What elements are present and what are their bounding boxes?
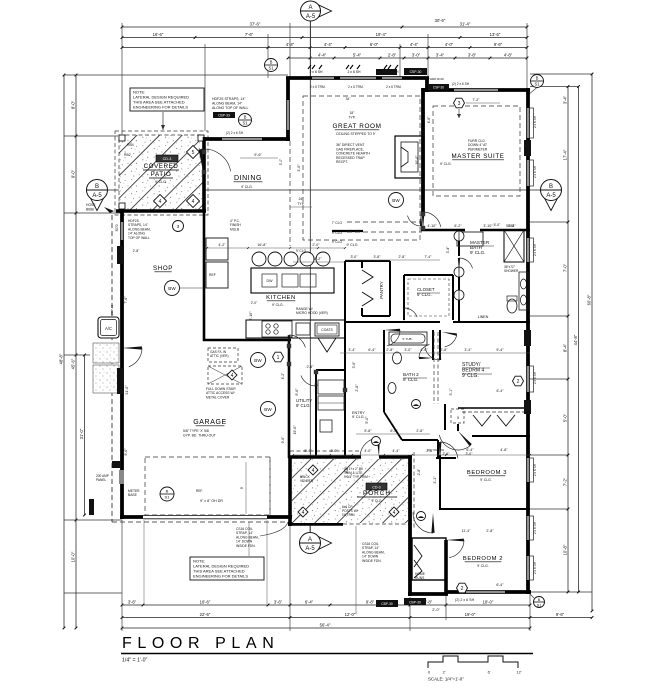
coats closet <box>315 323 339 336</box>
svg-text:A-5: A-5 <box>546 193 556 199</box>
door study <box>439 345 441 360</box>
svg-text:A-5: A-5 <box>92 193 102 199</box>
svg-text:LINEN: LINEN <box>478 315 489 319</box>
section cut line A vertical <box>309 21 311 533</box>
porch west wall <box>288 457 292 526</box>
covered patio dashed roof edge <box>115 131 208 215</box>
svg-text:BASE: BASE <box>128 493 138 497</box>
svg-text:6'-4": 6'-4" <box>368 348 376 352</box>
windows on great room north wall <box>312 76 334 79</box>
pantry door chevrons <box>362 270 373 284</box>
door bath2 <box>384 329 400 332</box>
svg-text:9' CLG.: 9' CLG. <box>470 250 485 255</box>
wall fixtures closet wall <box>454 231 464 241</box>
svg-text:9' CLG.: 9' CLG. <box>296 403 311 408</box>
svg-text:1X TRIM: 1X TRIM <box>342 513 355 517</box>
cbp tag bottom wall <box>376 600 398 607</box>
svg-text:2'-6": 2'-6" <box>443 452 451 456</box>
garage interior dim line <box>245 462 247 514</box>
holdown tag left of garage door <box>89 499 94 515</box>
svg-text:2'-0": 2'-0" <box>432 608 440 612</box>
svg-text:SCALE: 1/4"=1'-0": SCALE: 1/4"=1'-0" <box>428 677 464 682</box>
svg-text:9' CLG.: 9' CLG. <box>440 162 452 166</box>
svg-text:RB4: RB4 <box>127 143 134 147</box>
bedroom2 south wall <box>446 590 531 594</box>
section marker B/A-5 right <box>544 198 557 210</box>
svg-text:9' CLG: 9' CLG <box>296 249 307 253</box>
marker hex 3 master <box>454 98 465 108</box>
svg-text:2'-8": 2'-8" <box>417 468 421 476</box>
door garage-house <box>288 335 291 352</box>
svg-text:INSIDE FDN.: INSIDE FDN. <box>362 559 382 563</box>
svg-text:BW: BW <box>168 286 176 291</box>
svg-text:4'-4": 4'-4" <box>324 42 333 47</box>
svg-text:CBP-33: CBP-33 <box>218 114 230 118</box>
svg-text:7'-6": 7'-6" <box>124 296 128 304</box>
svg-text:8'-4": 8'-4" <box>563 343 568 352</box>
door master bath <box>458 258 460 272</box>
svg-text:PATIO: PATIO <box>151 171 172 178</box>
svg-text:2 x 6 SH: 2 x 6 SH <box>533 371 537 384</box>
svg-text:2 x 6 TRM.: 2 x 6 TRM. <box>310 85 326 89</box>
svg-text:CD-3: CD-3 <box>372 486 380 490</box>
svg-text:44'-8": 44'-8" <box>573 334 578 345</box>
svg-text:COATS: COATS <box>321 328 333 332</box>
svg-text:9'-6": 9'-6" <box>281 436 285 444</box>
svg-text:34": 34" <box>346 97 352 101</box>
svg-text:3'-4": 3'-4" <box>446 246 450 254</box>
marker A/A-5 bottom <box>318 536 331 549</box>
svg-text:37'-6": 37'-6" <box>250 21 261 26</box>
svg-text:3'-6": 3'-6" <box>128 599 137 604</box>
svg-text:3'-8": 3'-8" <box>374 255 382 259</box>
svg-text:2'-8": 2'-8" <box>399 255 407 259</box>
roof dashed toward bedroom wing <box>427 449 446 451</box>
svg-text:3'-6": 3'-6" <box>352 361 356 369</box>
svg-text:5'-0": 5'-0" <box>563 413 568 422</box>
svg-text:TOP OF WALL: TOP OF WALL <box>128 236 150 240</box>
svg-text:4'-4": 4'-4" <box>392 449 400 453</box>
svg-text:2'-8": 2'-8" <box>440 348 448 352</box>
svg-text:10'-0": 10'-0" <box>71 551 76 562</box>
svg-text:8'-0": 8'-0" <box>71 100 76 109</box>
svg-text:3'-0": 3'-0" <box>404 348 412 352</box>
svg-text:COVERED: COVERED <box>144 163 179 170</box>
svg-text:3'-1": 3'-1" <box>449 388 453 396</box>
interior dim line porch row <box>293 454 530 456</box>
hall to bedroom3 walls <box>444 404 446 430</box>
svg-text:4: 4 <box>192 199 195 205</box>
svg-text:9 3/4" TYP TRIM: 9 3/4" TYP TRIM <box>344 475 368 479</box>
left dim connectors <box>64 74 288 76</box>
pantry walls <box>345 260 390 262</box>
svg-text:5'-8": 5'-8" <box>364 429 372 433</box>
svg-text:HDF2S STRAPS, 14": HDF2S STRAPS, 14" <box>212 97 246 101</box>
svg-text:(2) 2 x 6 SH: (2) 2 x 6 SH <box>226 131 244 135</box>
svg-text:5' TUB: 5' TUB <box>402 337 411 341</box>
kitchen/garage wall <box>203 339 291 342</box>
extension lines from top dims <box>121 23 123 134</box>
garage door opening <box>143 515 267 518</box>
svg-text:9': 9' <box>240 486 244 489</box>
svg-text:4'-0": 4'-0" <box>364 449 372 453</box>
pantry and hall north wall <box>344 261 346 312</box>
svg-text:BEDROOM 2: BEDROOM 2 <box>463 556 503 562</box>
note box lateral design top <box>130 88 204 111</box>
door jamb ticks <box>202 150 206 154</box>
master north wall <box>424 88 530 92</box>
svg-text:A-5: A-5 <box>306 14 316 20</box>
side door arc shop <box>122 346 142 349</box>
svg-text:7' CLG: 7' CLG <box>332 221 343 225</box>
door bedroom3 <box>439 442 442 460</box>
porch south wall segment <box>288 522 343 526</box>
svg-text:4'-8": 4'-8" <box>504 52 513 57</box>
svg-text:MICRO HOOD (VER): MICRO HOOD (VER) <box>296 311 328 315</box>
CSP tags east wall <box>524 140 531 156</box>
svg-text:B: B <box>95 184 99 190</box>
svg-text:CSP-30: CSP-30 <box>433 86 444 90</box>
svg-text:7'-6": 7'-6" <box>245 32 254 37</box>
patio wall right <box>202 137 206 212</box>
bath2 west wall <box>383 330 385 412</box>
master vanity <box>519 272 528 310</box>
dimension row top 4 <box>288 57 527 59</box>
svg-text:GYP. BD. THRU-OUT: GYP. BD. THRU-OUT <box>183 433 216 437</box>
svg-text:4: 4 <box>302 510 305 516</box>
porch east wall <box>408 455 412 596</box>
svg-text:9' CLG: 9' CLG <box>332 231 343 235</box>
svg-text:2'-8": 2'-8" <box>386 348 394 352</box>
dimension col right 3 <box>591 74 593 611</box>
svg-text:2 x 6 SH: 2 x 6 SH <box>533 521 537 534</box>
porch diamonds <box>308 465 318 475</box>
svg-text:3'-4": 3'-4" <box>464 348 472 352</box>
svg-text:9'-6": 9'-6" <box>494 42 503 47</box>
master shower <box>504 230 524 262</box>
section marker A/A-5 top <box>318 5 331 17</box>
svg-text:CSP-30: CSP-30 <box>410 70 422 74</box>
svg-text:3'-0": 3'-0" <box>330 449 338 453</box>
hall dashed lines <box>433 332 435 404</box>
svg-text:12'-0": 12'-0" <box>345 612 356 617</box>
flatwork stipple pads <box>93 343 119 363</box>
svg-text:4: 4 <box>312 468 315 474</box>
dimension row top 2 <box>122 37 527 39</box>
meter base <box>160 487 174 501</box>
door master entry <box>422 212 425 230</box>
svg-text:3'-10": 3'-10" <box>483 224 493 228</box>
svg-text:CBP-30: CBP-30 <box>409 601 421 605</box>
svg-text:7'-2": 7'-2" <box>563 477 568 486</box>
svg-text:A: A <box>308 537 312 543</box>
thrd rod tags <box>428 84 449 90</box>
dimension row top 3 <box>122 47 527 49</box>
svg-text:ENGINEERING FOR DETAILS: ENGINEERING FOR DETAILS <box>193 574 248 579</box>
entry south wall <box>408 592 448 596</box>
svg-text:4'-2": 4'-2" <box>281 372 285 380</box>
patio/shop wall bottom <box>116 209 206 213</box>
svg-text:PERIMETER: PERIMETER <box>468 147 488 151</box>
svg-text:ATTIC (VER): ATTIC (VER) <box>210 354 229 358</box>
svg-text:5'-0": 5'-0" <box>365 416 369 424</box>
svg-text:B: B <box>166 489 169 494</box>
east wall <box>526 88 530 594</box>
svg-text:SHOWER: SHOWER <box>504 269 519 273</box>
svg-text:B: B <box>244 115 247 120</box>
svg-text:PANEL: PANEL <box>96 478 106 482</box>
attic access dashed <box>208 348 238 362</box>
svg-text:4'-6": 4'-6" <box>427 116 431 124</box>
master tub <box>457 232 483 246</box>
right dim connectors <box>530 73 592 75</box>
svg-text:9'-4": 9'-4" <box>496 348 504 352</box>
svg-text:TYP.: TYP. <box>298 202 305 206</box>
great room north wall <box>286 76 429 80</box>
svg-text:CBP-33: CBP-33 <box>110 304 114 315</box>
great room south dims <box>293 261 345 263</box>
fridge <box>206 262 228 288</box>
svg-text:(2) 2 x 6 SH: (2) 2 x 6 SH <box>455 598 475 602</box>
svg-text:31'-4": 31'-4" <box>460 21 471 26</box>
svg-text:6'-4": 6'-4" <box>390 429 398 433</box>
svg-text:B: B <box>549 184 553 190</box>
bw marker shop <box>165 281 180 296</box>
svg-text:4'-4": 4'-4" <box>410 42 419 47</box>
svg-text:19'-4": 19'-4" <box>376 32 387 37</box>
svg-text:PANTRY: PANTRY <box>379 281 384 298</box>
svg-text:PORCH: PORCH <box>363 490 391 497</box>
svg-text:16'-0": 16'-0" <box>415 155 419 165</box>
svg-text:S1: S1 <box>242 121 248 126</box>
svg-text:3'-0": 3'-0" <box>345 466 349 474</box>
svg-text:CBP-30: CBP-30 <box>381 602 393 606</box>
west wall shop/garage <box>120 209 124 519</box>
bedroom3 south wall <box>440 508 530 510</box>
kitchen bar stools <box>252 252 266 266</box>
door closet <box>403 308 405 322</box>
svg-text:9'-0": 9'-0" <box>124 448 128 456</box>
svg-text:B: B <box>270 60 273 65</box>
bedroom3 door arc <box>458 431 472 446</box>
svg-text:3'-4": 3'-4" <box>563 95 568 104</box>
svg-text:4: 4 <box>159 199 162 205</box>
svg-text:DINING: DINING <box>234 175 262 182</box>
svg-text:3: 3 <box>177 224 180 229</box>
svg-text:30'-6": 30'-6" <box>435 18 446 23</box>
svg-text:2'-10": 2'-10" <box>249 311 253 321</box>
interior dim line kitchen row <box>207 247 345 249</box>
marker B/S1 right top <box>531 75 544 88</box>
svg-text:RECPT.: RECPT. <box>336 160 348 164</box>
svg-text:TYP.: TYP. <box>349 116 356 120</box>
svg-text:2'-8": 2'-8" <box>355 384 359 392</box>
bottom note box <box>190 557 264 580</box>
fireplace <box>395 136 424 178</box>
svg-text:19'-6": 19'-6" <box>293 425 297 435</box>
svg-text:1: 1 <box>277 355 280 361</box>
svg-text:0: 0 <box>428 671 430 675</box>
wall south of closet/linen <box>345 321 440 323</box>
bottom extension lines <box>121 520 123 631</box>
svg-text:MASTER SUITE: MASTER SUITE <box>452 153 505 160</box>
A/C unit <box>98 317 119 338</box>
svg-text:9' CLG: 9' CLG <box>332 240 343 244</box>
svg-text:THRD ROD: THRD ROD <box>428 77 445 81</box>
svg-text:4'-8": 4'-8" <box>500 448 508 452</box>
svg-text:18": 18" <box>350 111 356 115</box>
CBP-30 label box bottom <box>404 598 426 605</box>
svg-text:13'-6": 13'-6" <box>490 32 501 37</box>
master south wall <box>421 229 465 231</box>
bedroom3 west wall <box>439 455 441 510</box>
dining/great room dashed boundary <box>289 141 291 246</box>
porch roof dashed south <box>343 523 412 525</box>
svg-text:A-5: A-5 <box>305 546 315 552</box>
svg-text:6'-4": 6'-4" <box>497 389 505 393</box>
svg-text:9'-6": 9'-6" <box>295 388 299 396</box>
utility appliances <box>318 380 344 394</box>
svg-text:BW: BW <box>264 407 272 412</box>
closet shelf dashed <box>408 279 449 316</box>
great room west wall upper <box>286 77 290 141</box>
svg-text:24": 24" <box>299 197 305 201</box>
dimension col left inner <box>75 75 77 628</box>
svg-text:CD-3: CD-3 <box>163 157 172 161</box>
svg-text:6': 6' <box>488 671 491 675</box>
svg-text:5: 5 <box>192 150 195 156</box>
svg-text:GARAGE: GARAGE <box>193 419 227 426</box>
svg-text:2'-8": 2'-8" <box>508 224 516 228</box>
bath2 east wall <box>432 330 434 360</box>
svg-text:5'-4": 5'-4" <box>353 52 362 57</box>
svg-text:VENEER: VENEER <box>300 479 314 483</box>
svg-text:16'-6": 16'-6" <box>200 599 211 604</box>
entry door arc <box>431 513 434 533</box>
svg-text:3'-0": 3'-0" <box>297 164 301 172</box>
svg-text:ALONG TOP OF WALL: ALONG TOP OF WALL <box>212 106 248 110</box>
header south of great room <box>332 230 363 232</box>
svg-text:2'-8": 2'-8" <box>426 449 434 453</box>
svg-text:9" x 8" OH DR: 9" x 8" OH DR <box>200 499 223 503</box>
dimension col right 1 <box>567 87 569 593</box>
ceiling step dashed lines <box>347 221 422 223</box>
bath2 toilet <box>393 352 402 364</box>
master ceiling dashed <box>433 106 520 196</box>
svg-text:3'-0": 3'-0" <box>466 452 474 456</box>
patio corner posts <box>119 135 125 141</box>
marker B/S1 top left <box>265 59 278 72</box>
master bath west wall <box>458 230 460 256</box>
closet walls <box>403 275 405 320</box>
svg-text:5'-0": 5'-0" <box>494 223 502 227</box>
svg-text:3'-0": 3'-0" <box>412 52 421 57</box>
front door arc <box>377 438 380 457</box>
svg-text:6'-4": 6'-4" <box>305 599 314 604</box>
svg-text:9'-6": 9'-6" <box>556 612 565 617</box>
entry fixture circles <box>412 400 421 409</box>
svg-text:6'-4": 6'-4" <box>496 583 504 587</box>
svg-text:S1: S1 <box>534 82 540 87</box>
porch hatched slab <box>292 459 408 523</box>
hall arc near bath2 <box>419 357 433 359</box>
marker circle 3 shop <box>173 221 184 232</box>
svg-text:2'-8": 2'-8" <box>388 52 397 57</box>
svg-text:2'-8": 2'-8" <box>486 529 494 533</box>
svg-text:CEILING STEPPED TO 9': CEILING STEPPED TO 9' <box>336 132 376 136</box>
CSP-30 tag great room wall <box>404 68 427 75</box>
svg-text:3'-4": 3'-4" <box>348 348 356 352</box>
dimension row bottom 1 <box>122 604 530 606</box>
svg-text:48'-8": 48'-8" <box>59 353 64 364</box>
svg-text:11'-4": 11'-4" <box>462 529 471 533</box>
svg-text:9'-0": 9'-0" <box>71 169 76 178</box>
svg-text:BW: BW <box>254 358 262 363</box>
svg-text:4: 4 <box>393 510 396 516</box>
svg-text:3'-6": 3'-6" <box>274 599 283 604</box>
svg-text:60'-8": 60'-8" <box>587 294 592 305</box>
bedroom2 west wall <box>444 540 448 594</box>
graphic scale bar <box>428 656 518 668</box>
svg-text:2'-8": 2'-8" <box>133 249 141 253</box>
patio diamonds <box>154 194 167 207</box>
bw garage circles <box>251 353 266 368</box>
svg-text:FLOOR PLAN: FLOOR PLAN <box>122 635 279 652</box>
svg-text:4'-10": 4'-10" <box>427 224 437 228</box>
study closet <box>458 407 530 409</box>
svg-text:2 x 6 SH: 2 x 6 SH <box>533 165 537 178</box>
bath2 sink <box>388 383 396 394</box>
svg-text:4: 4 <box>231 373 234 379</box>
svg-text:2 x 6 SH: 2 x 6 SH <box>533 561 537 574</box>
svg-text:S1: S1 <box>268 66 274 71</box>
svg-text:1/4" = 1'-0": 1/4" = 1'-0" <box>122 658 147 664</box>
svg-text:2: 2 <box>517 379 520 385</box>
svg-text:RUNS: RUNS <box>415 576 425 580</box>
svg-text:A: A <box>308 5 312 11</box>
svg-text:SHOP: SHOP <box>153 265 173 272</box>
bw great room <box>389 193 404 208</box>
door bedroom2 <box>446 539 464 542</box>
svg-text:2'-8": 2'-8" <box>307 365 315 369</box>
dimension row bottom 3 <box>122 627 530 629</box>
porch roof dashed right <box>413 452 415 528</box>
svg-text:6'-0": 6'-0" <box>370 42 379 47</box>
svg-text:16'-6": 16'-6" <box>153 32 164 37</box>
svg-text:18'-0": 18'-0" <box>483 599 494 604</box>
svg-text:3'-0": 3'-0" <box>351 255 359 259</box>
hall walls near bedrooms <box>439 330 441 360</box>
svg-text:9'-6": 9'-6" <box>254 153 262 157</box>
svg-text:12': 12' <box>517 671 522 675</box>
svg-text:B: B <box>536 76 539 81</box>
svg-text:9' CLG.: 9' CLG. <box>155 180 167 184</box>
study closet south / bedroom3 north wall <box>472 435 530 437</box>
svg-text:INSIDE FDN.: INSIDE FDN. <box>236 544 256 548</box>
svg-text:9' CLG.: 9' CLG. <box>480 478 491 482</box>
dimension row bottom 2 <box>122 617 592 619</box>
covered patio hatched slab <box>119 135 204 210</box>
svg-text:7'-4": 7'-4" <box>425 255 433 259</box>
svg-text:3: 3 <box>458 101 461 107</box>
door utility <box>315 370 318 386</box>
great room/master divider <box>425 77 429 92</box>
extension line porch to bottom <box>355 526 357 614</box>
svg-text:S1: S1 <box>165 495 171 500</box>
garage roof overhang dashed <box>112 521 290 523</box>
svg-text:GREAT ROOM: GREAT ROOM <box>332 123 381 130</box>
svg-text:2: 2 <box>461 586 464 592</box>
